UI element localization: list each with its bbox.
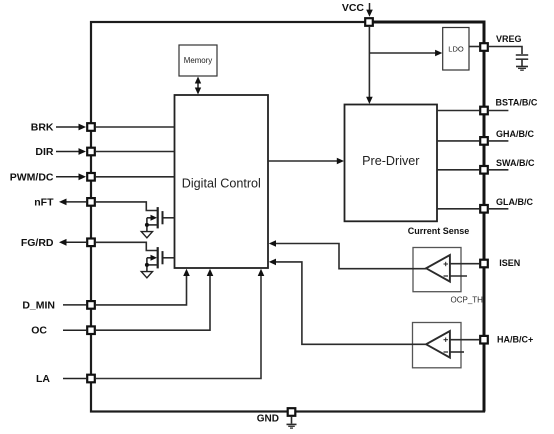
pin ISEN (480, 258, 520, 268)
capacitor C1 (VREG bypass) (516, 55, 528, 66)
label Current Sense (408, 226, 470, 236)
wire: nFT to Q1 drain (96, 202, 158, 211)
svg-text:SWA/B/C: SWA/B/C (496, 158, 535, 168)
pin BRK (31, 122, 95, 134)
svg-text:PWM/DC: PWM/DC (10, 171, 54, 183)
svg-text:ISEN: ISEN (499, 258, 520, 268)
wire: D_MIN to Digital Control (96, 269, 190, 305)
pin BSTA/B/C (480, 98, 538, 115)
wire: U5 minus input (450, 351, 464, 353)
wire: DIR to Digital Control (96, 151, 175, 153)
pin nFT (34, 196, 95, 208)
pin GLA/B/C (480, 197, 533, 213)
wire: Pre-Driver to BSTA/B/C (437, 110, 508, 112)
pin DIR (35, 146, 94, 158)
ground (Q1 source) (141, 232, 152, 238)
svg-text:OCP_TH: OCP_TH (451, 296, 484, 305)
wire: PWM/DC to Digital Control (96, 176, 175, 178)
label OCP_TH (451, 296, 484, 305)
wire: U4 output to Digital Control (269, 240, 426, 269)
svg-text:D_MIN: D_MIN (22, 299, 55, 311)
svg-text:GHA/B/C: GHA/B/C (496, 129, 535, 139)
Memory block (179, 45, 217, 76)
wire: VCC power rail (top-right and right border, bold) (369, 22, 484, 412)
wire: Pre-Driver to SWA/B/C (437, 169, 508, 171)
wire: VREG to bypass capacitor (489, 47, 522, 55)
wire: HA/B/C+ to U5 plus input (450, 339, 479, 341)
pin HA/B/C+ (480, 334, 533, 344)
Digital Control block U1 (175, 95, 269, 268)
op-amp U4 (current sense comparator) (413, 248, 461, 292)
wire: ISEN to U4 plus input (450, 263, 479, 265)
svg-text:VCC: VCC (342, 2, 365, 14)
svg-text:BSTA/B/C: BSTA/B/C (496, 98, 538, 108)
wire: VCC internal feed to Pre-Driver (366, 27, 373, 104)
pin LA (36, 373, 95, 385)
wire: OC to Digital Control (96, 269, 214, 330)
wire: Pre-Driver to GLA/B/C (437, 208, 508, 210)
wire: U4 minus input (OCP_TH reference) (450, 275, 467, 277)
Pre-Driver block U3 (345, 105, 438, 222)
wire: VCC branch to LDO (369, 50, 442, 57)
pin VCC (342, 2, 373, 26)
svg-text:VREG: VREG (496, 34, 522, 44)
wire: Digital Control to Pre-Driver (268, 158, 344, 165)
wire: BRK to Digital Control (96, 126, 175, 128)
ground (VREG cap earth) (516, 67, 528, 71)
pin VREG (480, 34, 521, 51)
ground (GND pin earth) (287, 417, 297, 428)
transistor Q1 (nFT open-drain) (145, 207, 163, 231)
wire: Pre-Driver to GHA/B/C (437, 140, 508, 142)
svg-text:Current Sense: Current Sense (408, 226, 470, 236)
wire: Q2 gate to Digital Control (164, 257, 175, 259)
wire: LA to Digital Control (96, 269, 264, 379)
pin GHA/B/C (480, 129, 534, 145)
wire: Q1 gate to Digital Control (164, 217, 175, 219)
pin OC (31, 325, 95, 337)
svg-text:LDO: LDO (448, 45, 464, 54)
svg-text:Memory: Memory (184, 56, 213, 65)
pin FG/RD (21, 237, 95, 249)
pin D_MIN (22, 299, 94, 311)
pin PWM/DC (10, 171, 95, 183)
wire: LDO output to VREG pin (469, 46, 479, 48)
svg-text:DIR: DIR (35, 146, 54, 158)
svg-text:FG/RD: FG/RD (21, 237, 54, 249)
svg-text:GND: GND (257, 414, 279, 425)
pin SWA/B/C (480, 158, 535, 174)
wire: FG/RD to Q2 drain (96, 242, 158, 250)
op-amp U5 (hall comparator) (413, 323, 462, 368)
chip outline (91, 22, 484, 412)
svg-text:Digital Control: Digital Control (182, 177, 261, 191)
pin GND (257, 408, 296, 425)
wire: Memory to Digital Control (bidirectional arrow) (195, 77, 201, 95)
LDO U2 (443, 28, 469, 71)
transistor Q2 (FG/RD open-drain) (145, 247, 163, 271)
svg-text:OC: OC (31, 325, 47, 337)
svg-text:BRK: BRK (31, 122, 54, 134)
svg-text:HA/B/C+: HA/B/C+ (497, 334, 533, 344)
wire: U5 output to Digital Control (269, 259, 426, 345)
svg-text:LA: LA (36, 373, 50, 385)
svg-text:GLA/B/C: GLA/B/C (496, 197, 533, 207)
ground (Q2 source) (141, 272, 152, 278)
svg-text:Pre-Driver: Pre-Driver (362, 154, 419, 168)
svg-text:nFT: nFT (34, 196, 54, 208)
